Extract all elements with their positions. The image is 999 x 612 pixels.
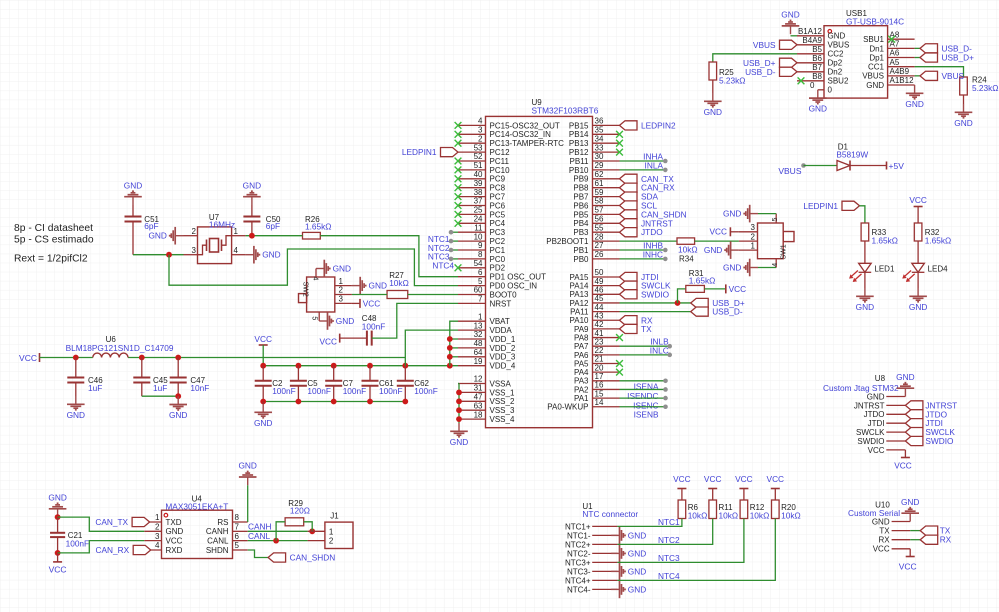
svg-text:A6: A6 <box>890 49 900 58</box>
no-connect X at SBU1 <box>888 36 895 43</box>
crystal U7 16MHz <box>184 213 246 264</box>
svg-text:B5819W: B5819W <box>836 149 868 159</box>
svg-text:PC4: PC4 <box>490 219 506 228</box>
resistor R11 10kOhm pullup <box>709 500 738 520</box>
svg-text:37: 37 <box>474 197 483 206</box>
svg-text:62: 62 <box>595 170 604 179</box>
svg-text:31: 31 <box>474 384 483 393</box>
svg-text:1: 1 <box>751 241 756 250</box>
capacitor C51 6pF <box>125 215 160 255</box>
wire C48 to NRST <box>372 303 458 338</box>
svg-text:19: 19 <box>474 357 483 366</box>
wire RX <box>910 539 920 541</box>
svg-text:GND: GND <box>333 263 351 273</box>
svg-text:5.23kΩ: 5.23kΩ <box>972 83 999 93</box>
diode D1 B5819W <box>836 142 886 170</box>
svg-text:9: 9 <box>478 241 483 250</box>
svg-text:42: 42 <box>595 320 604 329</box>
svg-text:GND: GND <box>628 530 646 540</box>
svg-text:B4A9: B4A9 <box>802 36 822 45</box>
flag VBUS at USB Dp side <box>753 40 797 50</box>
resistor R24 5.23kOhm <box>960 76 999 105</box>
svg-text:VCC: VCC <box>894 461 912 471</box>
wire TX <box>910 530 920 532</box>
flag LEDPIN2 on PB15 <box>620 120 676 130</box>
node INLA wire on PB10 <box>620 160 668 172</box>
flag CAN_TX on U9 <box>620 174 675 184</box>
svg-text:5.23kΩ: 5.23kΩ <box>719 76 746 86</box>
svg-text:VBUS: VBUS <box>753 40 776 50</box>
flag JTDI at U8 <box>905 418 943 428</box>
svg-text:NTC3-: NTC3- <box>567 567 591 576</box>
capacitor C48 100nF <box>362 314 386 345</box>
svg-text:GND: GND <box>723 209 741 219</box>
svg-text:B6: B6 <box>812 54 822 63</box>
svg-text:2: 2 <box>329 537 334 546</box>
resistor R20 10kOhm pullup <box>772 500 801 520</box>
supply VCC at SW1 pin3 <box>709 227 738 237</box>
svg-text:NTC2: NTC2 <box>658 535 680 545</box>
svg-text:BLM18PG121SN1D_C14709: BLM18PG121SN1D_C14709 <box>66 343 174 353</box>
svg-text:VDD_4: VDD_4 <box>490 362 516 371</box>
svg-text:RX: RX <box>878 536 890 545</box>
resistor R27 10kOhm <box>387 271 409 298</box>
svg-text:60: 60 <box>474 286 483 295</box>
wire PA12 to USB_D+ <box>620 300 691 306</box>
ground at SW1 pin1 <box>704 241 739 259</box>
node ISENB wire on PA0 <box>620 404 668 419</box>
svg-text:4: 4 <box>234 246 239 255</box>
svg-text:36: 36 <box>595 117 604 126</box>
wire C45/C47 common to ground <box>142 393 181 399</box>
svg-text:26: 26 <box>595 250 604 259</box>
svg-text:VCC: VCC <box>767 474 785 484</box>
node NTC4 label <box>432 260 454 270</box>
svg-text:CANH: CANH <box>206 527 229 536</box>
ground under A1B12 <box>905 85 923 109</box>
svg-text:GT-USB-9014C: GT-USB-9014C <box>846 17 904 27</box>
svg-text:+5V: +5V <box>889 161 905 171</box>
wire C21 top to U4 GND pin <box>55 514 145 531</box>
svg-text:27: 27 <box>595 241 604 250</box>
ground at NTC minus pin <box>611 581 646 599</box>
svg-text:LEDPIN2: LEDPIN2 <box>641 120 676 130</box>
svg-text:SBU2: SBU2 <box>828 77 849 86</box>
svg-text:SW2: SW2 <box>301 282 308 297</box>
svg-text:1: 1 <box>155 513 160 522</box>
capacitor C5 100nF <box>290 366 331 402</box>
svg-text:Dn1: Dn1 <box>869 44 884 53</box>
svg-text:23: 23 <box>595 337 604 346</box>
svg-text:NRST: NRST <box>490 299 512 308</box>
svg-text:PA7: PA7 <box>574 342 589 351</box>
svg-text:55: 55 <box>595 223 604 232</box>
connector J1 <box>308 512 353 549</box>
svg-text:NTC3+: NTC3+ <box>565 558 591 567</box>
svg-text:PA5: PA5 <box>574 359 589 368</box>
svg-text:NTC1: NTC1 <box>658 517 680 527</box>
svg-text:NTC2+: NTC2+ <box>565 540 591 549</box>
wire VSS tie to ground <box>456 384 462 424</box>
svg-text:VSS_1: VSS_1 <box>490 388 515 397</box>
svg-text:PB12: PB12 <box>569 148 589 157</box>
ground for C51 <box>124 180 142 216</box>
capacitor C62 100nF <box>397 366 438 402</box>
flag RX at U10 <box>920 535 951 545</box>
node NTC3 wire on PC0 <box>428 252 458 262</box>
ferrite bead U6 BLM18PG121SN1D_C14709 <box>66 335 174 358</box>
svg-text:SWDIO: SWDIO <box>857 437 884 446</box>
ground at U8 GND pin <box>896 372 914 397</box>
svg-text:PA11: PA11 <box>570 308 589 317</box>
no-connect X marks on U9 left pins <box>455 122 462 271</box>
svg-text:PC7: PC7 <box>490 193 506 202</box>
ground at SW1 pin5 <box>723 205 776 223</box>
svg-text:1uF: 1uF <box>153 383 167 393</box>
wire CC1 to R24 <box>915 67 964 77</box>
supply VCC at U8 <box>894 450 912 471</box>
svg-text:16MHz: 16MHz <box>209 219 235 229</box>
wire PA11 to USB_D- <box>620 311 691 313</box>
svg-text:RX: RX <box>940 535 952 545</box>
svg-text:4: 4 <box>772 263 779 267</box>
svg-text:B5: B5 <box>812 45 822 54</box>
svg-text:VCC: VCC <box>673 474 691 484</box>
svg-text:10kΩ: 10kΩ <box>678 245 698 255</box>
svg-text:PC10: PC10 <box>490 166 511 175</box>
capacitor C45 1uF <box>133 358 168 397</box>
svg-text:14: 14 <box>595 398 604 407</box>
svg-text:PA9: PA9 <box>574 325 589 334</box>
svg-text:GND: GND <box>450 437 468 447</box>
flag SCL on U9 <box>620 201 658 211</box>
svg-text:GND: GND <box>901 497 919 507</box>
svg-text:PC11: PC11 <box>490 157 510 166</box>
svg-text:50: 50 <box>595 268 604 277</box>
svg-text:53: 53 <box>474 143 483 152</box>
svg-text:Dn2: Dn2 <box>828 68 843 77</box>
supply VCC above R12 <box>735 474 753 500</box>
ground under LED4 <box>909 288 927 312</box>
svg-text:20: 20 <box>595 363 604 372</box>
svg-text:CANH: CANH <box>248 522 272 532</box>
svg-text:PA2: PA2 <box>574 385 589 394</box>
svg-text:GND: GND <box>238 461 256 471</box>
svg-text:NTC4: NTC4 <box>658 571 680 581</box>
svg-text:PB7: PB7 <box>573 193 589 202</box>
svg-text:JNTRST: JNTRST <box>854 401 885 410</box>
svg-text:GND: GND <box>954 118 972 128</box>
svg-text:PB4: PB4 <box>573 219 589 228</box>
svg-text:59: 59 <box>595 188 604 197</box>
flag LEDPIN1 to R33 <box>803 201 864 223</box>
svg-text:JTDO: JTDO <box>864 410 885 419</box>
capacitor C61 100nF <box>362 366 403 402</box>
flag CAN_RX on U9 <box>620 183 676 193</box>
ground under USB pin 0 <box>809 90 827 114</box>
wire C21 bottom to U4 VCC pin <box>55 541 145 556</box>
svg-text:SBU1: SBU1 <box>863 35 884 44</box>
svg-text:4: 4 <box>478 117 483 126</box>
switch SW1 <box>739 214 794 268</box>
flag JNTRST on U9 <box>620 218 673 228</box>
wire PB2/BOOT1 to R34 <box>620 240 678 242</box>
wire PC3 dangling <box>449 230 458 235</box>
svg-text:VCC: VCC <box>899 561 917 571</box>
svg-text:3: 3 <box>751 223 756 232</box>
svg-text:GND: GND <box>169 410 187 420</box>
svg-text:10kΩ: 10kΩ <box>688 510 708 520</box>
svg-text:VCC: VCC <box>909 195 927 205</box>
svg-text:7: 7 <box>235 523 240 532</box>
resistor R33 1.65kOhm <box>861 223 898 263</box>
svg-text:VCC: VCC <box>166 537 183 546</box>
svg-text:PC6: PC6 <box>490 201 506 210</box>
capacitor C7 100nF <box>325 366 366 402</box>
svg-text:8p - CI datasheet: 8p - CI datasheet <box>14 223 93 234</box>
svg-text:0: 0 <box>828 86 833 95</box>
svg-text:52: 52 <box>474 152 483 161</box>
wire decoupling cap bottoms to ground <box>260 399 408 405</box>
svg-text:PC1: PC1 <box>490 246 506 255</box>
wire OSC net: U7 pin3 / C51 to PD0 OSC_IN <box>133 249 458 286</box>
resistor R29 120 Ohm termination <box>276 499 312 541</box>
svg-text:18: 18 <box>474 410 483 419</box>
svg-text:NTC2-: NTC2- <box>567 549 591 558</box>
svg-text:PB10: PB10 <box>569 166 589 175</box>
wire NTC1 net <box>617 517 682 527</box>
svg-text:RXD: RXD <box>166 546 183 555</box>
svg-text:28: 28 <box>595 232 604 241</box>
svg-text:47: 47 <box>474 393 483 402</box>
svg-text:GND: GND <box>828 32 846 41</box>
svg-text:NTC4+: NTC4+ <box>565 576 591 585</box>
svg-text:GND: GND <box>628 548 646 558</box>
supply VCC above R11 <box>704 474 722 500</box>
svg-text:PA13: PA13 <box>570 290 590 299</box>
svg-text:VBUS: VBUS <box>942 71 965 81</box>
supply VCC above R6 <box>673 474 691 500</box>
svg-text:PC12: PC12 <box>490 148 511 157</box>
supply VCC power entry <box>19 353 39 363</box>
svg-text:PD0 OSC_IN: PD0 OSC_IN <box>490 282 538 291</box>
svg-text:29: 29 <box>595 161 604 170</box>
svg-text:GND: GND <box>866 81 884 90</box>
svg-text:4: 4 <box>311 277 318 281</box>
svg-text:33: 33 <box>595 143 604 152</box>
svg-text:51: 51 <box>474 161 483 170</box>
svg-text:R34: R34 <box>679 254 694 263</box>
svg-text:46: 46 <box>595 286 604 295</box>
ground at NTC minus pin <box>611 545 646 563</box>
svg-text:1.65kΩ: 1.65kΩ <box>872 236 899 246</box>
svg-text:GND: GND <box>723 262 741 272</box>
svg-text:Dp2: Dp2 <box>828 59 843 68</box>
flag USB_D+ at PA12 <box>691 298 745 308</box>
svg-text:45: 45 <box>595 294 604 303</box>
svg-text:63: 63 <box>474 401 483 410</box>
svg-text:3: 3 <box>478 126 483 135</box>
ground at U7 pin4 <box>246 246 281 264</box>
svg-text:5: 5 <box>772 218 779 222</box>
svg-text:5p - CS estimado: 5p - CS estimado <box>14 234 94 245</box>
svg-text:GND: GND <box>704 245 722 255</box>
svg-text:1.65kΩ: 1.65kΩ <box>689 275 716 285</box>
wire VBAT/VDD tie <box>447 321 458 366</box>
flag SDA on U9 <box>620 192 659 202</box>
svg-text:VCC: VCC <box>868 446 885 455</box>
svg-text:61: 61 <box>595 179 604 188</box>
svg-text:VSS_3: VSS_3 <box>490 406 515 415</box>
ground at U10 GND pin <box>901 497 919 522</box>
svg-text:SHDN: SHDN <box>206 546 229 555</box>
svg-text:2: 2 <box>478 134 483 143</box>
svg-text:3: 3 <box>192 246 197 255</box>
svg-text:1: 1 <box>329 527 334 536</box>
wire NTC4 net <box>617 519 775 581</box>
supply VCC at U10 <box>899 549 917 572</box>
svg-text:100nF: 100nF <box>307 386 331 396</box>
svg-text:PB14: PB14 <box>569 130 589 139</box>
supply VCC above decoupling caps <box>254 334 272 366</box>
svg-text:GND: GND <box>243 180 261 190</box>
node NTC1 wire on PC2 <box>428 234 458 244</box>
svg-text:24: 24 <box>474 215 483 224</box>
svg-text:A4B9: A4B9 <box>890 67 910 76</box>
svg-text:LED4: LED4 <box>928 264 949 273</box>
wire SHDN to CAN_SHDN flag <box>248 550 268 558</box>
flag VBUS at A4B9 <box>915 71 965 81</box>
svg-text:GND: GND <box>628 566 646 576</box>
svg-text:GND: GND <box>254 418 272 428</box>
svg-text:LED1: LED1 <box>874 264 895 273</box>
flag JNTRST at U8 <box>905 400 957 410</box>
svg-text:GND: GND <box>369 281 387 291</box>
wire RS to ground <box>247 485 249 522</box>
svg-text:25: 25 <box>474 206 483 215</box>
svg-text:PC13-TAMPER-RTC: PC13-TAMPER-RTC <box>490 139 565 148</box>
wire VDD cap rail top <box>260 363 458 369</box>
svg-text:3: 3 <box>155 532 160 541</box>
svg-text:USB_D-: USB_D- <box>712 307 743 317</box>
svg-text:VCC: VCC <box>729 284 747 294</box>
LED LED1 <box>849 263 895 288</box>
svg-text:0: 0 <box>810 81 815 90</box>
svg-text:J1: J1 <box>330 512 339 521</box>
svg-text:VCC: VCC <box>873 545 890 554</box>
svg-text:TX: TX <box>879 527 890 536</box>
svg-text:2: 2 <box>339 286 344 295</box>
svg-text:10nF: 10nF <box>190 383 209 393</box>
svg-text:6pF: 6pF <box>266 221 280 231</box>
supply VCC at R31 <box>704 284 746 294</box>
svg-text:CC1: CC1 <box>868 63 885 72</box>
wire OSC net: U7 pin1 / C50 to R26 to PD1 OSC_OUT <box>246 233 458 277</box>
svg-text:USB_D-: USB_D- <box>745 67 776 77</box>
svg-text:JTDO: JTDO <box>641 227 663 237</box>
svg-text:LEDPIN1: LEDPIN1 <box>402 147 437 157</box>
flag SWDIO at U8 <box>905 436 954 446</box>
svg-text:VSS_2: VSS_2 <box>490 397 515 406</box>
flag TX at U10 <box>920 526 951 536</box>
svg-text:GND: GND <box>124 180 142 190</box>
svg-text:VBAT: VBAT <box>490 317 510 326</box>
svg-text:100nF: 100nF <box>379 386 403 396</box>
svg-text:GND: GND <box>48 493 66 503</box>
capacitor C50 6pF <box>243 215 281 236</box>
svg-text:7: 7 <box>478 295 483 304</box>
svg-text:CANL: CANL <box>207 537 229 546</box>
supply VCC above R32 <box>909 195 927 223</box>
ground above C21 <box>48 493 66 518</box>
flag RX on U9 <box>620 315 653 325</box>
svg-text:120Ω: 120Ω <box>290 506 310 516</box>
svg-text:PB5: PB5 <box>573 210 589 219</box>
svg-text:A1B12: A1B12 <box>890 76 915 85</box>
connector U8 Custom Jtag STM32 <box>823 374 905 455</box>
svg-text:6: 6 <box>478 268 483 277</box>
node CANH wire to J1 pin1 <box>248 522 315 535</box>
svg-text:GND: GND <box>336 316 354 326</box>
svg-text:PC9: PC9 <box>490 175 506 184</box>
resistor R6 10kOhm pullup <box>678 500 707 520</box>
resistor R32 1.65kOhm <box>914 223 951 263</box>
svg-text:GND: GND <box>262 250 280 260</box>
svg-text:PD1 OSC_OUT: PD1 OSC_OUT <box>490 273 547 282</box>
svg-text:CAN_SHDN: CAN_SHDN <box>290 553 336 563</box>
ground at SW2 pin1 <box>352 277 387 295</box>
svg-text:GND: GND <box>704 107 722 117</box>
flag CAN_SHDN <box>268 553 335 563</box>
svg-text:8: 8 <box>235 513 240 522</box>
svg-text:1.65kΩ: 1.65kΩ <box>305 222 332 232</box>
svg-text:PA10: PA10 <box>570 316 590 325</box>
resistor R25 5.23kOhm <box>709 54 797 93</box>
svg-text:PB8: PB8 <box>573 184 589 193</box>
supply +5V <box>887 161 905 171</box>
flag TX on U9 <box>620 324 653 334</box>
svg-text:100nF: 100nF <box>362 321 386 331</box>
svg-text:54: 54 <box>474 259 483 268</box>
CAN transceiver U4 MAX3051EKA+T <box>144 494 248 558</box>
svg-text:10kΩ: 10kΩ <box>719 510 739 520</box>
svg-text:SW1: SW1 <box>781 244 788 259</box>
svg-text:58: 58 <box>595 197 604 206</box>
capacitor C2 100nF <box>255 366 296 402</box>
svg-text:INHC: INHC <box>643 249 663 259</box>
flag JTDI on U9 <box>620 272 659 282</box>
svg-text:VDD_2: VDD_2 <box>490 344 516 353</box>
text annotation notes <box>14 223 94 264</box>
svg-text:VCC: VCC <box>49 565 67 575</box>
flag SWCLK at U8 <box>905 427 955 437</box>
flag JTDO at U8 <box>905 409 947 419</box>
svg-text:43: 43 <box>595 311 604 320</box>
svg-text:12: 12 <box>474 375 483 384</box>
ground above U4 RS pin <box>238 461 256 486</box>
svg-text:6: 6 <box>235 532 240 541</box>
svg-text:VBUS: VBUS <box>828 41 850 50</box>
svg-text:39: 39 <box>474 179 483 188</box>
svg-text:PC2: PC2 <box>490 237 506 246</box>
flag LEDPIN1 on PC12 <box>402 147 458 157</box>
node INHB wire on PB1 <box>620 241 668 253</box>
svg-text:VDDA: VDDA <box>490 326 513 335</box>
svg-text:PA0-WKUP: PA0-WKUP <box>547 403 588 412</box>
svg-text:GND: GND <box>872 517 890 526</box>
svg-text:1.65kΩ: 1.65kΩ <box>925 236 952 246</box>
wire SW2 pin2 to R27 to BOOT0 <box>352 294 458 296</box>
